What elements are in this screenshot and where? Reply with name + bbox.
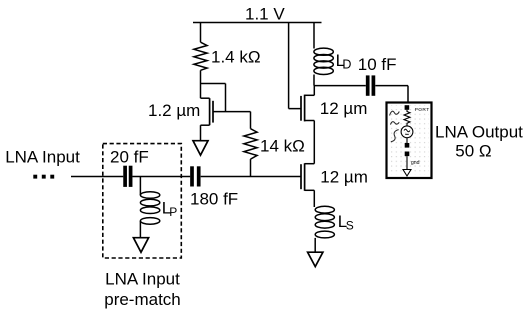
wire LD bottom to output node [313,75,315,86]
caption LNA Input pre-match [104,270,181,310]
svg-text:12 µm: 12 µm [320,99,368,118]
label 1.1 V [245,5,285,24]
port P1 terminal square [405,105,410,110]
wire LS to ground [314,238,316,252]
wire R1 to M3 drain [200,70,202,98]
wire LP to ground [139,221,141,238]
port P1 gnd arrow [403,156,411,176]
node VDD 1.1 V rail [193,22,322,24]
port P1 source circle [401,126,413,138]
ground below M3 [193,141,208,156]
svg-text:1.2 µm: 1.2 µm [148,101,200,120]
svg-text:12 µm: 12 µm [320,168,368,187]
inductor LP [140,192,159,225]
ground below LP [133,238,148,253]
resistor R1 1.4 kOhm [194,42,207,70]
label LNA Input [5,148,80,167]
wire VDD to R1 [200,23,202,43]
svg-text:pre-match: pre-match [104,290,181,309]
svg-text:20 fF: 20 fF [110,148,149,167]
transistor M2 cascode 12 um [301,95,314,122]
label 12 um top [320,99,368,118]
label 1.2 um [148,101,200,120]
svg-text:PORT: PORT [415,107,430,113]
inductor LD [314,48,333,74]
capacitor C1 20 fF [125,166,131,187]
label LP [162,198,177,218]
wire C3 to port [375,86,408,104]
wire VDD to LD [313,23,315,49]
ground below LS [308,252,323,266]
wire R2 top lead [250,112,252,129]
label 20 fF [110,148,149,167]
svg-text:50 Ω: 50 Ω [455,142,491,161]
inductor LS [315,206,334,238]
transistor M3 1.2 um diode-connected [201,98,214,125]
wire node to LP [139,177,141,196]
port P1 node square 2 [405,152,410,157]
wire M2 drain up [313,86,315,96]
port P1 node square 1 [405,143,410,148]
capacitor C2 180 fF [192,166,199,186]
svg-text:S: S [346,219,354,233]
label 180 fF [190,189,238,208]
wire M2 source to M1 drain [313,121,315,164]
label 1.4 kOhm [211,48,261,67]
label 12 um bottom [320,168,368,187]
port P1 wire [406,138,408,143]
wire C2 to M1 gate [201,176,301,178]
svg-text:1.1 V: 1.1 V [245,5,285,24]
label gnd gray [411,160,420,166]
transistor M1 input 12 um [301,163,314,191]
wire M3 source to ground [200,125,202,140]
port P1 box [387,103,432,179]
wire C1 to C2 [132,176,190,178]
svg-text:LNA Input: LNA Input [105,270,180,289]
wire output node to C3 [314,85,366,87]
svg-text:180 fF: 180 fF [190,189,238,208]
wire VDD to M2 gate [289,23,301,109]
svg-text:gnd: gnd [411,160,420,166]
label 14 kOhm [260,137,305,156]
label 10 fF [358,55,397,74]
svg-text:10 fF: 10 fF [358,55,397,74]
capacitor C3 10 fF [368,75,374,95]
wire input to C1 [71,176,123,178]
dashed pre-match box [103,144,182,258]
svg-text:P: P [169,205,177,219]
label LD [336,51,352,71]
wire drain-gate tie horizontal [201,83,226,85]
port P1 resistor squiggle [404,110,410,126]
wire M1 source to LS [313,190,315,207]
wire gate node to R2 top [213,111,251,113]
input dots [33,175,54,179]
wire drain-gate tie vertical [225,84,227,112]
svg-text:LNA Input: LNA Input [5,148,80,167]
wire R2 bottom lead [250,159,252,176]
label PORT gray [415,107,430,113]
label LNA Output [435,123,523,161]
svg-text:1.4 kΩ: 1.4 kΩ [211,48,261,67]
resistor R2 14 kOhm [244,129,257,159]
svg-text:LNA Output: LNA Output [435,123,523,142]
label LS [338,212,354,232]
port P1 grid dots [389,105,429,175]
port P1 wavy marks [390,111,400,142]
svg-text:14 kΩ: 14 kΩ [260,137,305,156]
svg-text:D: D [342,57,351,71]
